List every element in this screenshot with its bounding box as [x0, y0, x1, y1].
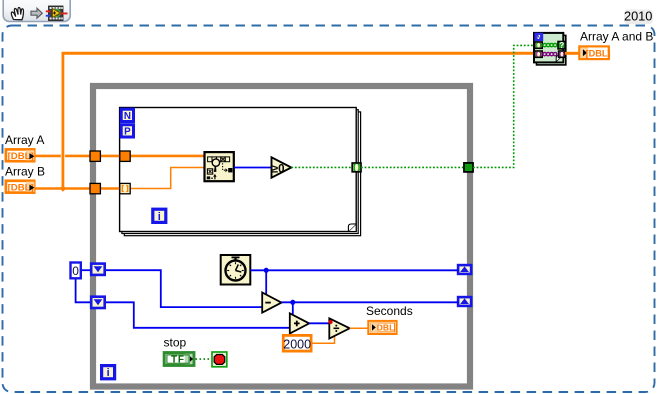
- svg-text:N: N: [536, 33, 541, 42]
- svg-text:Array A: Array A: [5, 133, 44, 147]
- wire: node to comparison (blue i32): [234, 167, 272, 169]
- svg-text:[DBL]: [DBL]: [586, 49, 611, 59]
- wire: Array A horizontal (array, with crossover gaps): [34, 155, 204, 158]
- svg-text:i: i: [158, 211, 161, 223]
- junction on Array B: [60, 185, 67, 192]
- wire: top array run to build node: [62, 52, 536, 55]
- svg-text:N: N: [124, 111, 131, 122]
- svg-text:DBL: DBL: [377, 323, 394, 333]
- node: comparison >=0: [272, 157, 292, 177]
- terminal stop boolean TF: [164, 353, 194, 366]
- svg-text:2010: 2010: [624, 9, 652, 24]
- wire: divide to Seconds: [350, 327, 368, 329]
- wire: 0 down to shift register 2: [76, 280, 91, 303]
- shift register left 1: [91, 264, 105, 275]
- build node input terminal 2 (dbl array): [535, 51, 542, 57]
- for loop count terminal N: [121, 109, 133, 122]
- indicator Array A and B [DBL]: [579, 46, 610, 59]
- build node input terminal 1 (bool array): [535, 42, 542, 48]
- tunnel: Array A on for loop (no indexing): [120, 151, 130, 161]
- svg-text:stop: stop: [164, 335, 187, 349]
- wire: build node to indicator: [565, 52, 579, 55]
- icon: LabVIEW film run: [46, 6, 68, 21]
- svg-text:Array A and B: Array A and B: [580, 29, 653, 43]
- tunnel: Array B on for loop (auto-indexing): [120, 183, 130, 193]
- wire: boolean array dotted up to build node: [473, 45, 535, 167]
- junction dot subtract row: [290, 300, 295, 305]
- wire: subtract out to SR right 2: [282, 301, 459, 303]
- for loop dog-ear corner: [348, 224, 356, 232]
- while loop border: [93, 86, 470, 387]
- wire: SR2 out down to add: [106, 302, 291, 328]
- icon: pan hand tool: [11, 7, 23, 19]
- node: subtract: [262, 293, 281, 313]
- wire: clock to SR right 1 with branch down: [250, 269, 458, 271]
- build node output terminal: [559, 51, 565, 57]
- build node ? terminal: [558, 41, 565, 50]
- svg-text:Array B: Array B: [5, 165, 45, 179]
- tunnel: Array B on while border: [90, 183, 100, 193]
- wire: Array B scalar inside for loop: [130, 168, 204, 189]
- wire: down to add top input: [292, 302, 294, 316]
- wire: down to subtract top input: [265, 270, 267, 295]
- shift register right 1: [458, 265, 471, 274]
- svg-text:?: ?: [559, 41, 564, 50]
- build node chain glyphs: [543, 43, 557, 46]
- node: divide: [329, 318, 350, 338]
- svg-text:i: i: [107, 367, 110, 379]
- stop button icon: [212, 352, 227, 367]
- node: Search 1D Array U1: [205, 152, 234, 181]
- control Array A [DBL]: [6, 149, 35, 162]
- svg-text:P: P: [124, 127, 131, 138]
- build node terminal N: [536, 33, 543, 42]
- svg-text:Seconds: Seconds: [366, 304, 413, 318]
- tab 2010: [624, 9, 653, 24]
- for loop: stacked parallel layers: [120, 108, 361, 236]
- while loop iteration terminal i: [102, 366, 115, 380]
- node: Search Unsorted 1D Array (express): [534, 33, 566, 65]
- wire: 0 to shift register 1: [82, 269, 92, 271]
- wire: boolean array dotted to while tunnel: [361, 166, 465, 168]
- indicator Seconds DBL: [368, 321, 396, 334]
- toolbar: [3, 0, 70, 22]
- svg-text:TF: TF: [171, 355, 185, 366]
- wire: orange branch vertical to top: [62, 55, 65, 189]
- for loop iteration terminal i: [153, 209, 166, 223]
- junction dot clock row: [264, 268, 269, 273]
- tunnel: Array A on while border: [90, 151, 100, 161]
- node: Tick Count (ms) clock: [221, 255, 251, 285]
- wire: 2000 to divide: [313, 333, 335, 344]
- shift register left 2: [91, 297, 105, 308]
- tunnel: boolean array out of while loop: [464, 163, 473, 172]
- wire: boolean dotted green to for tunnel: [291, 166, 352, 168]
- constant 0: [71, 263, 81, 279]
- wire: SR1 out down to subtract: [106, 270, 263, 307]
- svg-text:≥0: ≥0: [272, 163, 285, 175]
- icon: arrow: [31, 8, 42, 18]
- svg-text:2000: 2000: [283, 337, 311, 351]
- wire: Array B horizontal (array): [34, 187, 120, 190]
- node: add: [290, 313, 309, 333]
- wire: add out to divide: [309, 322, 331, 324]
- constant 2000: [283, 335, 311, 351]
- tunnel: boolean auto-indexing out of for loop: [352, 163, 361, 172]
- wire: stop dotted boolean: [196, 358, 212, 360]
- control Array B [DBL]: [6, 181, 35, 194]
- shift register right 2: [458, 297, 471, 306]
- for loop parallel instances terminal P: [121, 125, 133, 138]
- svg-text:0: 0: [72, 264, 79, 278]
